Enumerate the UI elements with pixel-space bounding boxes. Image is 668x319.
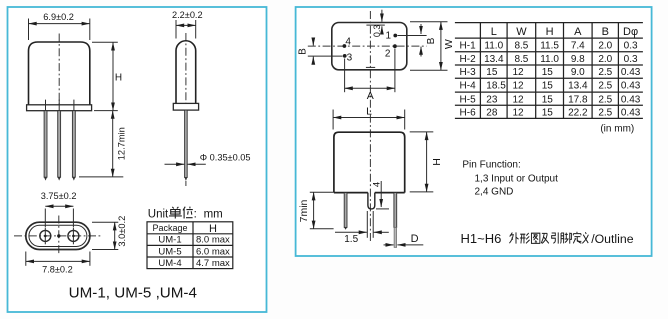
dimension H right bbox=[410, 131, 434, 133]
svg-text:6.9±0.2: 6.9±0.2 bbox=[43, 12, 74, 22]
seal stub bbox=[368, 193, 375, 209]
svg-text:13.4: 13.4 bbox=[568, 81, 588, 92]
dimension 7min bbox=[310, 191, 334, 193]
lead 2 bbox=[58, 111, 61, 178]
svg-text:11.0: 11.0 bbox=[484, 41, 503, 52]
svg-text:9.0: 9.0 bbox=[571, 67, 585, 78]
svg-text::: : bbox=[194, 208, 197, 220]
svg-text:2.5: 2.5 bbox=[598, 94, 612, 105]
dimension 7.8±0.2 bbox=[25, 252, 27, 266]
front lead left bbox=[344, 193, 347, 228]
svg-text:1: 1 bbox=[386, 31, 392, 42]
svg-text:3.75±0.2: 3.75±0.2 bbox=[41, 191, 77, 201]
bottom tab bbox=[366, 66, 375, 68]
svg-text:8.0 max: 8.0 max bbox=[196, 235, 230, 246]
svg-text:4: 4 bbox=[345, 36, 351, 47]
dimension 12.7min bbox=[112, 111, 114, 177]
svg-text:8.5: 8.5 bbox=[514, 54, 528, 65]
脚 bbox=[561, 233, 572, 244]
bottom view v centerline bbox=[58, 216, 60, 255]
top view body bbox=[332, 23, 407, 70]
svg-text:1.5: 1.5 bbox=[344, 234, 358, 245]
dimension Φ0.35±0.05 leader bbox=[165, 163, 185, 165]
dimension W bbox=[410, 21, 448, 23]
svg-text:0.3: 0.3 bbox=[624, 54, 638, 65]
svg-text:H-3: H-3 bbox=[460, 67, 477, 78]
svg-text:UM-5: UM-5 bbox=[158, 246, 181, 257]
package table bbox=[147, 222, 233, 269]
top view v centerline bbox=[369, 11, 371, 243]
pin stubs through flange bbox=[45, 100, 47, 111]
svg-text:1,3 Input or Output: 1,3 Input or Output bbox=[475, 174, 559, 185]
outer stadium bbox=[26, 222, 90, 249]
svg-text:H-5: H-5 bbox=[460, 94, 477, 105]
svg-text:Pin Function:: Pin Function: bbox=[462, 160, 520, 171]
side view can body bbox=[176, 41, 196, 104]
dimension 2.2±0.2 bbox=[175, 20, 177, 39]
svg-text:18.5: 18.5 bbox=[486, 81, 506, 92]
svg-text:12: 12 bbox=[513, 67, 525, 78]
dimension 3.0±0.2 bbox=[92, 221, 118, 223]
外 bbox=[509, 232, 518, 243]
svg-text:15: 15 bbox=[542, 94, 554, 105]
svg-text:11.0: 11.0 bbox=[540, 54, 559, 65]
hole right bbox=[68, 230, 79, 241]
及 bbox=[541, 233, 549, 243]
svg-text:2.5: 2.5 bbox=[598, 108, 612, 119]
svg-text:H-2: H-2 bbox=[460, 54, 477, 65]
svg-text:0.43: 0.43 bbox=[621, 67, 641, 78]
front view centerline bbox=[58, 34, 60, 109]
svg-text:15: 15 bbox=[486, 67, 498, 78]
形 bbox=[520, 233, 530, 243]
dimension 1.5 bbox=[366, 211, 368, 238]
dimension 0.3 bbox=[381, 10, 383, 22]
svg-text:7.8±0.2: 7.8±0.2 bbox=[42, 265, 73, 275]
svg-text:8.5: 8.5 bbox=[514, 41, 528, 52]
top tab bbox=[366, 24, 374, 26]
svg-text:L: L bbox=[366, 106, 372, 118]
svg-text:3: 3 bbox=[347, 52, 353, 63]
svg-text:D: D bbox=[411, 233, 419, 245]
svg-text:15: 15 bbox=[542, 108, 554, 119]
svg-text:Φ 0.35±0.05: Φ 0.35±0.05 bbox=[200, 153, 251, 163]
svg-text:Package: Package bbox=[152, 223, 187, 233]
svg-text:11.5: 11.5 bbox=[540, 41, 559, 52]
inner stadium bbox=[29, 225, 87, 246]
dimension H (left) bbox=[92, 41, 118, 43]
svg-text:2,4 GND: 2,4 GND bbox=[475, 186, 514, 197]
svg-text:L: L bbox=[491, 26, 497, 38]
hole left bbox=[40, 230, 51, 241]
svg-text:4.7 max: 4.7 max bbox=[196, 258, 230, 269]
svg-text:B: B bbox=[602, 26, 609, 38]
svg-text:4: 4 bbox=[372, 182, 383, 187]
pin 2 bbox=[393, 44, 397, 48]
CJK caption glyphs 外形图及引脚定义 bbox=[509, 232, 588, 244]
svg-text:mm: mm bbox=[204, 208, 223, 220]
front view base flange bbox=[27, 105, 92, 111]
right panel border bbox=[296, 7, 652, 256]
front view can body bbox=[29, 42, 90, 105]
CJK 单 bbox=[169, 207, 182, 219]
center dot bbox=[57, 234, 60, 237]
svg-text:H-6: H-6 bbox=[460, 108, 477, 119]
svg-text:B: B bbox=[297, 48, 308, 55]
svg-text:12.7min: 12.7min bbox=[116, 127, 126, 160]
svg-text:H: H bbox=[115, 73, 122, 84]
svg-text:7.4: 7.4 bbox=[571, 41, 585, 52]
svg-text:6.0 max: 6.0 max bbox=[196, 246, 230, 257]
svg-text:H: H bbox=[209, 223, 217, 235]
svg-text:UM-4: UM-4 bbox=[158, 258, 181, 269]
svg-text:3.0±0.2: 3.0±0.2 bbox=[117, 216, 127, 247]
图 bbox=[531, 233, 539, 243]
dimension D bbox=[384, 244, 394, 246]
pin 1 bbox=[393, 34, 397, 38]
svg-text:0.3: 0.3 bbox=[624, 41, 638, 52]
side view centerline bbox=[185, 33, 187, 186]
svg-text:H: H bbox=[546, 26, 554, 38]
svg-text:2.2±0.2: 2.2±0.2 bbox=[172, 10, 203, 20]
svg-text:H: H bbox=[431, 158, 443, 166]
front lead right (extended) bbox=[394, 193, 397, 228]
义 bbox=[582, 232, 588, 243]
svg-text:0.43: 0.43 bbox=[621, 81, 641, 92]
dimension 6.9±0.2 bbox=[28, 19, 30, 41]
引 bbox=[552, 232, 559, 243]
svg-text:B: B bbox=[426, 37, 437, 44]
svg-text:28: 28 bbox=[486, 108, 498, 119]
svg-text:2.0: 2.0 bbox=[598, 54, 612, 65]
dimension A bbox=[344, 59, 346, 93]
svg-text:9.8: 9.8 bbox=[571, 54, 585, 65]
svg-text:W: W bbox=[443, 39, 455, 49]
lead 1 bbox=[44, 111, 47, 178]
svg-text:0.43: 0.43 bbox=[621, 94, 641, 105]
pin 3 bbox=[343, 54, 347, 58]
svg-text:2.0: 2.0 bbox=[598, 41, 612, 52]
dimension B left bbox=[312, 39, 314, 46]
svg-text:/Outline: /Outline bbox=[591, 232, 634, 246]
svg-text:Unit: Unit bbox=[148, 208, 169, 220]
svg-text:H-1: H-1 bbox=[460, 41, 477, 52]
CJK 位 bbox=[183, 207, 193, 219]
svg-text:H1~H6: H1~H6 bbox=[461, 231, 502, 246]
svg-text:2: 2 bbox=[385, 49, 391, 60]
dimension 3.75±0.2 bbox=[44, 209, 46, 228]
定 bbox=[573, 232, 581, 244]
svg-text:UM-1: UM-1 bbox=[158, 235, 181, 246]
dimension B right bbox=[420, 24, 422, 34]
left panel border bbox=[8, 7, 267, 312]
top view h centerline bbox=[308, 45, 427, 47]
svg-text:15: 15 bbox=[542, 81, 554, 92]
svg-text:W: W bbox=[516, 26, 527, 38]
dimension L bbox=[332, 110, 334, 130]
svg-text:0.3: 0.3 bbox=[372, 25, 382, 38]
svg-text:0.43: 0.43 bbox=[621, 108, 641, 119]
dimension 4 bbox=[380, 181, 382, 207]
svg-text:2.5: 2.5 bbox=[598, 67, 612, 78]
svg-text:12: 12 bbox=[513, 108, 525, 119]
svg-text:22.2: 22.2 bbox=[568, 108, 588, 119]
svg-text:23: 23 bbox=[486, 94, 498, 105]
front view bottom edge bbox=[334, 192, 368, 194]
svg-text:Dφ: Dφ bbox=[623, 26, 638, 38]
side view lead bbox=[185, 110, 188, 177]
pin 4 bbox=[343, 44, 347, 48]
pin1 reference line bbox=[398, 35, 427, 37]
svg-text:7min: 7min bbox=[298, 199, 310, 222]
lead 3 bbox=[72, 111, 75, 178]
svg-text:A: A bbox=[367, 90, 374, 102]
side view base flange bbox=[173, 103, 198, 110]
svg-text:13.4: 13.4 bbox=[484, 54, 504, 65]
svg-text:A: A bbox=[574, 26, 582, 38]
svg-text:15: 15 bbox=[542, 67, 554, 78]
svg-text:12: 12 bbox=[513, 94, 525, 105]
svg-text:17.8: 17.8 bbox=[568, 94, 588, 105]
pin3 reference line bbox=[308, 55, 343, 57]
svg-text:H-4: H-4 bbox=[460, 81, 477, 92]
bottom view h centerline bbox=[14, 235, 102, 237]
svg-text:2.5: 2.5 bbox=[598, 81, 612, 92]
front view body bbox=[334, 132, 405, 192]
svg-text:UM-1, UM-5 ,UM-4: UM-1, UM-5 ,UM-4 bbox=[69, 285, 197, 302]
svg-text:12: 12 bbox=[513, 81, 525, 92]
svg-text:(in mm): (in mm) bbox=[600, 124, 634, 135]
